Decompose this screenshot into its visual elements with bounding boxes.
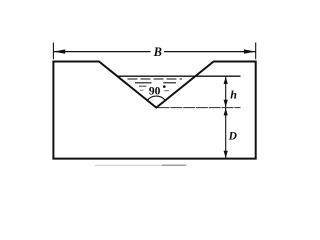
arrowhead B right xyxy=(244,49,256,53)
water hatch small mark left of 90 xyxy=(140,89,144,91)
water hatch row 1 xyxy=(128,78,183,80)
svg-text:B: B xyxy=(153,45,162,59)
water surface line xyxy=(117,75,240,77)
dimension line D xyxy=(225,108,227,158)
dimension line B (left segment) xyxy=(53,51,150,53)
svg-text:90: 90 xyxy=(149,86,161,98)
vertex level extension line xyxy=(158,107,241,109)
scan artifact darker segment xyxy=(162,164,187,166)
water hatch row 2 left dash xyxy=(135,82,152,84)
arrowhead B left xyxy=(53,49,65,53)
water hatch row 3 left dash xyxy=(139,85,147,87)
weir block outline with V-notch xyxy=(53,62,255,159)
scan artifact faint line below bottom edge xyxy=(95,164,186,166)
svg-text:D: D xyxy=(228,131,238,143)
water hatch row 2 right dash xyxy=(163,82,176,84)
arrowhead D bottom xyxy=(224,151,228,158)
extension line left for B xyxy=(52,43,54,60)
dimension line B (right segment) xyxy=(164,51,256,53)
arrowhead h top xyxy=(224,77,228,84)
dimension line h xyxy=(225,77,227,108)
degree symbol xyxy=(163,85,166,88)
arrowhead D top xyxy=(224,108,228,115)
angle arc at notch vertex xyxy=(147,96,165,100)
water hatch row 3 right dash xyxy=(164,90,169,92)
svg-text:h: h xyxy=(230,88,237,102)
extension line right for B xyxy=(255,43,257,60)
arrowhead h bottom xyxy=(224,100,228,107)
